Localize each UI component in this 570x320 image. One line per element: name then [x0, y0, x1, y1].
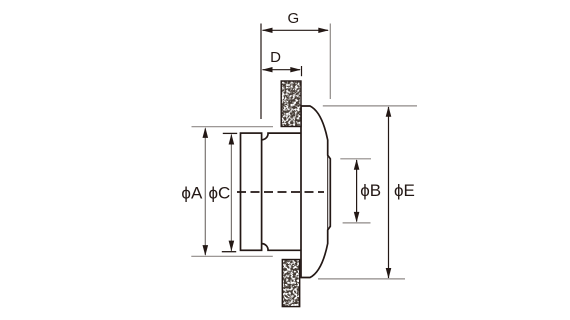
dimension phiE: top extension line [323, 105, 417, 107]
dimension phiA: dimension line [204, 129, 206, 256]
svg-text:G: G [287, 10, 299, 27]
dimension D: dimension line [263, 69, 301, 71]
dimension phiB: top arrowhead [354, 159, 360, 170]
dimension phiA: top arrowhead [203, 127, 209, 138]
dimension G: left extension line [260, 24, 262, 120]
dimension G: left arrowhead [262, 28, 273, 33]
svg-text:D: D [270, 49, 281, 66]
dimension phiA: bottom extension line [191, 255, 272, 257]
abrasive segment (bottom, stippled) [282, 260, 299, 307]
wheel body: front flange disc [241, 133, 262, 250]
dimension phiA: top extension line [192, 126, 274, 128]
svg-text:ϕB: ϕB [360, 181, 381, 200]
centerline (axis) [237, 191, 324, 193]
dimension D: left arrowhead [262, 67, 273, 72]
dimension phiC: top arrowhead [229, 134, 235, 145]
dimension phiE: bottom extension line [318, 278, 405, 280]
dimension G: dimension line [263, 29, 329, 31]
dimension phiB: bottom arrowhead [354, 212, 360, 223]
dimension phiB: top extension tick [340, 158, 371, 160]
svg-text:ϕC: ϕC [208, 184, 230, 203]
dimension phiE: dimension line [388, 107, 390, 278]
wheel body: bell-shaped backing core with boss [301, 106, 330, 278]
wheel body: hub bottom edge with relief fillet [262, 244, 301, 251]
svg-text:ϕE: ϕE [394, 181, 415, 200]
dimension G: right arrowhead [318, 28, 329, 33]
wheel body: hub top edge with relief fillet [262, 133, 301, 140]
boss base edge line [327, 155, 329, 230]
dimension phiC: top extension tick [223, 132, 237, 134]
dimension phiB: dimension line [356, 160, 358, 222]
dimension phiB: bottom extension tick [343, 222, 371, 224]
dimension G: right extension line [329, 24, 331, 100]
dimension phiA: bottom arrowhead [203, 245, 209, 256]
abrasive segment (top, stippled) [281, 81, 301, 127]
dimension phiC: bottom arrowhead [229, 241, 235, 252]
dimension phiE: bottom arrowhead [386, 268, 392, 279]
dimension D: right arrowhead [290, 67, 301, 72]
dimension phiC: bottom extension tick [222, 251, 236, 253]
dimension D: right extension tick [301, 66, 303, 76]
dimension phiC: dimension line [230, 135, 232, 252]
dimension phiE: top arrowhead [386, 106, 392, 117]
svg-text:ϕA: ϕA [181, 184, 203, 203]
